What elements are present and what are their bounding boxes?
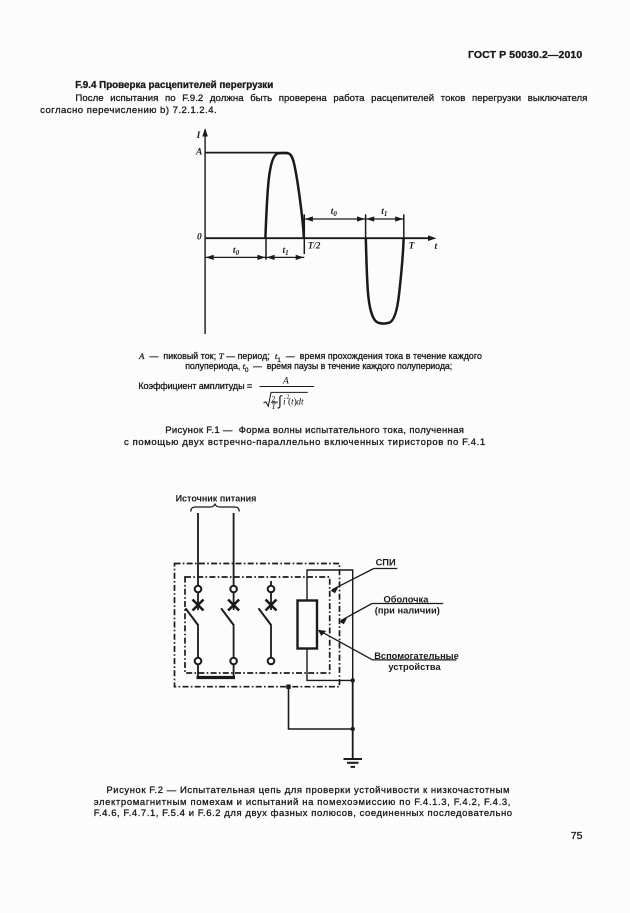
svg-text:t0: t0 <box>233 246 240 257</box>
svg-text:t: t <box>435 242 438 252</box>
svg-text:A: A <box>195 148 202 158</box>
svg-text:t1: t1 <box>381 207 387 218</box>
svg-text:A: A <box>282 377 289 387</box>
svg-text:t1: t1 <box>283 246 289 257</box>
svg-text:СПИ: СПИ <box>376 558 396 568</box>
svg-text:Источник питания: Источник питания <box>176 493 257 503</box>
svg-text:T/2: T/2 <box>308 241 321 251</box>
svg-text:0: 0 <box>197 233 202 243</box>
svg-text:t0: t0 <box>331 207 338 218</box>
svg-text:Оболочка: Оболочка <box>384 594 430 604</box>
svg-text:(при наличии): (при наличии) <box>375 606 440 616</box>
svg-text:dt: dt <box>296 398 304 408</box>
svg-text:I: I <box>196 131 201 141</box>
svg-text:Вспомогательные: Вспомогательные <box>374 651 459 661</box>
svg-text:T: T <box>409 241 416 251</box>
svg-text:T: T <box>271 402 276 411</box>
svg-text:устройства: устройства <box>388 662 441 672</box>
